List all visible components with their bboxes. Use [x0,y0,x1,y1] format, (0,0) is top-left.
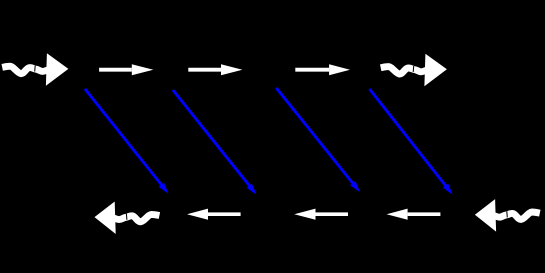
wavy arrow top-right (transmitted wave, rightward) [381,54,447,87]
wavy arrow bottom-right (counter-propagating wave, leftward) [475,199,540,232]
scattering arrow 3 (blue, down-right) [276,88,360,192]
wavy arrow bottom-left (back-reflected wave, leftward) [95,202,160,235]
scattering arrow 2 (blue, down-right) [173,90,257,195]
backward arrow 2 (bottom row, leftward) [294,209,348,220]
backward arrow 3 (bottom row, leftward) [387,209,441,220]
wavy arrow top-left (incident wave, rightward) [2,53,68,86]
backward arrow 1 (bottom row, leftward) [187,209,241,220]
forward arrow 1 (top row, rightward) [99,64,153,75]
forward arrow 2 (top row, rightward) [188,64,242,75]
scattering arrow 4 (blue, down-right) [370,89,453,195]
forward arrow 3 (top row, rightward) [295,64,350,75]
scattering arrow 1 (blue, down-right) [85,89,168,194]
